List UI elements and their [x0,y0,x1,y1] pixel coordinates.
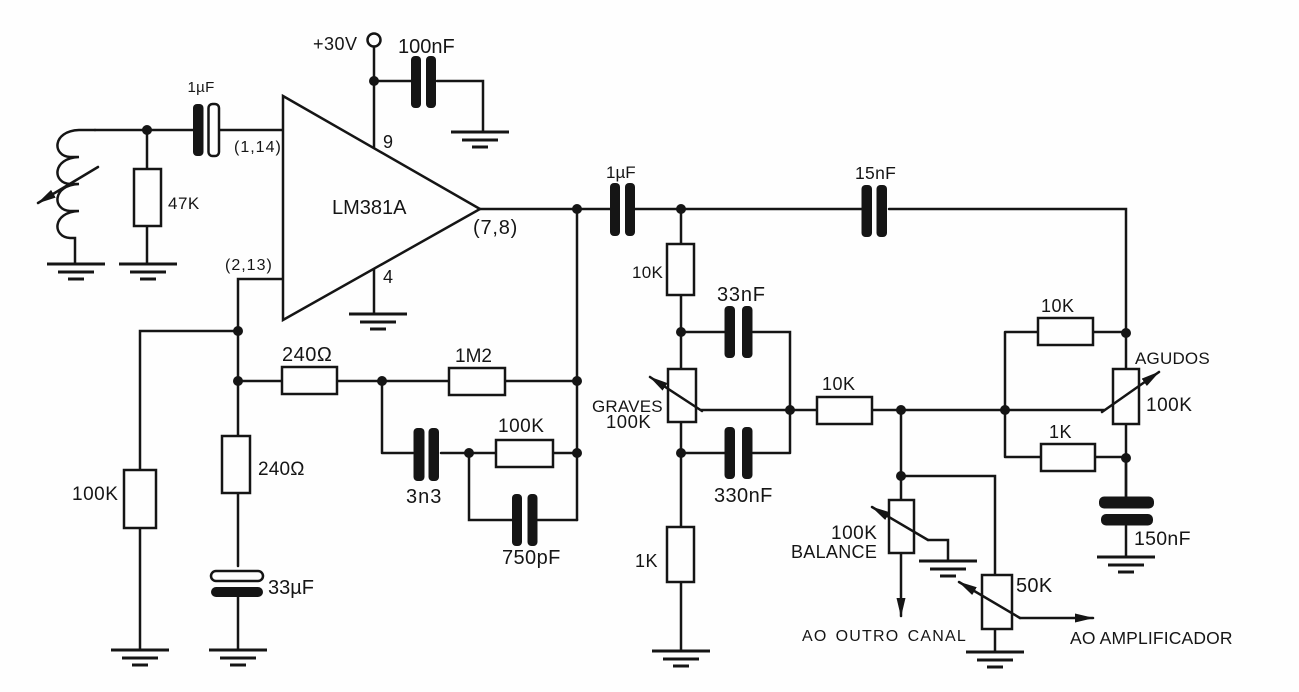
svg-text:150nF: 150nF [1134,528,1191,550]
svg-text:LM381A: LM381A [332,197,407,219]
svg-text:100K: 100K [831,523,877,544]
svg-text:33nF: 33nF [717,284,766,306]
svg-text:3n3: 3n3 [406,486,442,508]
svg-text:750pF: 750pF [502,547,561,569]
svg-text:100nF: 100nF [398,36,455,58]
svg-text:AGUDOS: AGUDOS [1135,349,1210,368]
svg-text:100K: 100K [606,411,651,432]
svg-text:9: 9 [383,132,393,152]
svg-text:10K: 10K [822,374,856,394]
svg-text:(7,8): (7,8) [473,217,518,239]
svg-text:1K: 1K [1049,422,1072,442]
svg-text:AO AMPLIFICADOR: AO AMPLIFICADOR [1070,628,1233,648]
svg-text:15nF: 15nF [855,163,896,183]
svg-text:330nF: 330nF [714,485,773,507]
svg-text:10K: 10K [1041,296,1075,316]
svg-text:1µF: 1µF [606,163,636,182]
svg-text:10K: 10K [632,263,664,282]
svg-text:100K: 100K [1146,395,1192,416]
svg-text:100K: 100K [72,484,118,505]
svg-text:240Ω: 240Ω [258,459,305,480]
svg-text:47K: 47K [168,194,200,213]
svg-text:240Ω: 240Ω [282,344,332,366]
svg-text:100K: 100K [498,416,544,437]
svg-text:(2,13): (2,13) [225,257,273,274]
svg-text:50K: 50K [1016,575,1053,597]
svg-text:33µF: 33µF [268,577,314,599]
svg-text:4: 4 [383,267,393,287]
svg-text:(1,14): (1,14) [234,139,282,156]
svg-text:1µF: 1µF [188,79,215,96]
svg-text:+30V: +30V [313,34,358,54]
svg-text:BALANCE: BALANCE [791,542,877,562]
svg-text:1M2: 1M2 [455,346,492,367]
svg-text:1K: 1K [635,551,658,571]
svg-text:AO OUTRO CANAL: AO OUTRO CANAL [802,628,967,645]
